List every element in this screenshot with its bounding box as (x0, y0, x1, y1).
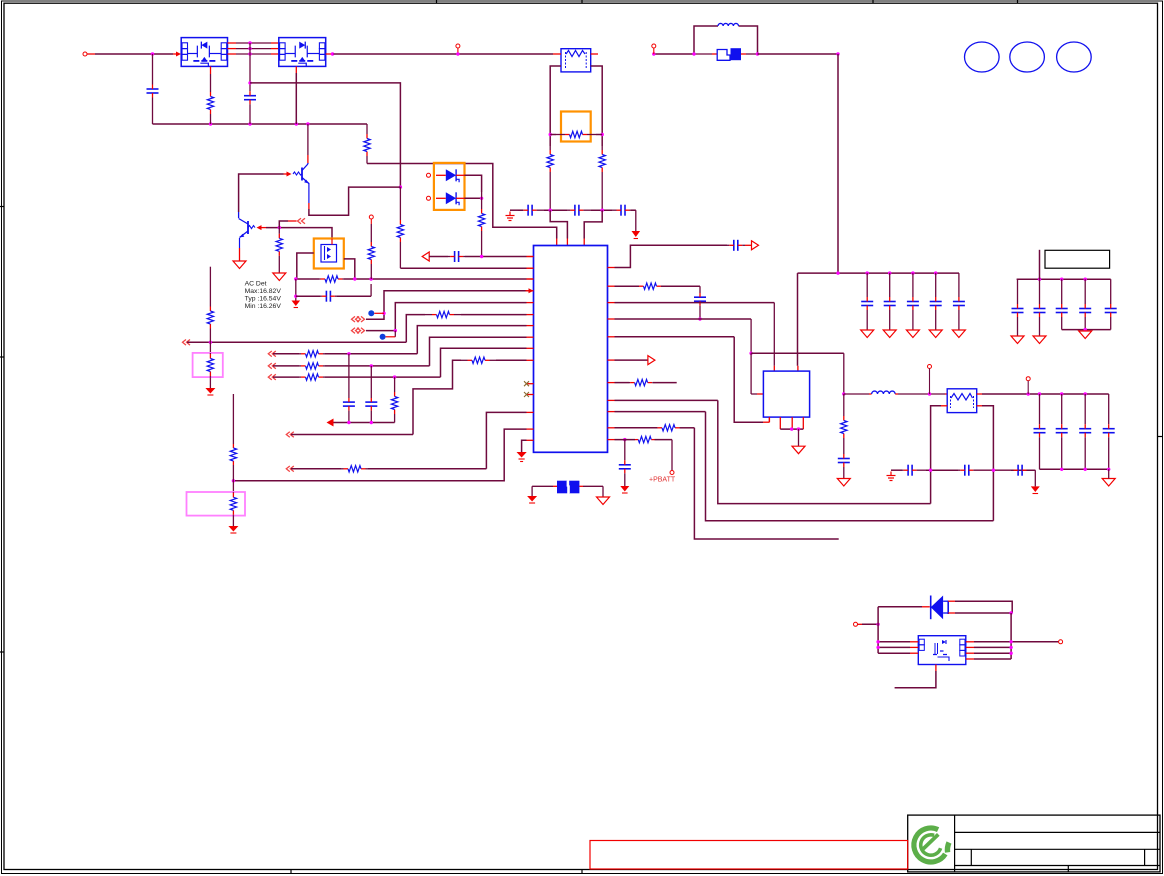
wire (751, 353, 844, 394)
wire (531, 486, 533, 496)
wire (966, 652, 1013, 655)
pin (331, 239, 333, 245)
title block (908, 815, 1160, 872)
label PBATT (649, 477, 676, 484)
wire net8 (273, 348, 527, 380)
resistor R23 (615, 436, 673, 442)
wire to IC (482, 256, 534, 258)
fuse F1 (694, 48, 758, 60)
wire (152, 54, 154, 84)
port P3 (183, 340, 191, 346)
wire net16 (615, 400, 931, 503)
capacitor C25 (619, 440, 631, 486)
wire net14 (615, 319, 752, 353)
wire Q4 base (266, 228, 332, 239)
wire (295, 279, 297, 301)
junction (836, 271, 937, 274)
junction (248, 41, 251, 55)
capacitor C24 (838, 452, 850, 479)
junction (209, 122, 310, 125)
capacitor C7 (518, 205, 544, 216)
junction (692, 52, 759, 55)
capacitor bank C10-C14 (861, 273, 966, 337)
junction (1009, 611, 1012, 614)
wires Q1-Q2 (228, 43, 280, 54)
resistor R11 (556, 131, 596, 137)
wire net4 (366, 303, 527, 331)
wire RT1 right leg (591, 66, 603, 146)
capacitor C5 (296, 291, 371, 302)
capacitor C8 (567, 205, 591, 216)
capacitor C22 (727, 240, 745, 251)
ground (597, 497, 610, 505)
terminal PBATT (670, 471, 674, 475)
wire to IC top3 (584, 210, 602, 245)
port P7 (286, 432, 294, 438)
junction (347, 421, 373, 424)
power flag (632, 231, 641, 239)
pin arrow Q1 (173, 52, 181, 57)
wire (758, 52, 840, 55)
junction (623, 438, 626, 441)
terminal (369, 215, 373, 224)
thermistor RT1 (561, 49, 591, 72)
wire (798, 429, 800, 446)
pin (210, 66, 212, 74)
wire gnd pin (522, 440, 527, 452)
terminal (456, 44, 460, 56)
junction (151, 52, 154, 55)
resistor R11 highlight (561, 112, 591, 142)
port P2 (352, 328, 365, 334)
pin (977, 393, 982, 395)
wire lower rail (1062, 318, 1111, 331)
wire (699, 286, 701, 293)
wire (895, 671, 936, 688)
wire (878, 606, 930, 608)
wire (631, 210, 636, 231)
pin (556, 239, 558, 246)
wire (876, 646, 918, 649)
svg-text:Max:16.82V: Max:16.82V (245, 288, 282, 295)
wire Q3 base (239, 174, 284, 212)
wire net3 (366, 291, 527, 319)
port (422, 252, 429, 261)
ground (228, 526, 238, 533)
capacitor bank C15-C19 (1012, 279, 1117, 329)
junction (209, 341, 212, 344)
wire (671, 440, 673, 470)
wire (751, 353, 763, 394)
wire net19 (931, 406, 941, 504)
resistor R12 (547, 146, 553, 210)
ground (792, 446, 805, 454)
diode D3 (931, 596, 949, 620)
ground (233, 261, 246, 269)
wire net11 (233, 429, 526, 481)
capacitor C32 (1011, 465, 1035, 476)
inductor L1 loop (694, 26, 758, 54)
port P8 (286, 466, 294, 472)
svg-text:AC Det: AC Det (245, 281, 267, 288)
wire (1011, 318, 1024, 344)
capacitor C2 (244, 83, 256, 124)
wire (496, 359, 527, 361)
pin arrow Q4 base (257, 225, 267, 230)
wire Q3 emitter (309, 183, 401, 215)
resistor R5 (397, 187, 403, 268)
wire D1 (465, 175, 482, 192)
port stub (279, 221, 296, 228)
ground (1079, 331, 1092, 339)
pin (295, 66, 297, 73)
inductor L1 (718, 23, 739, 26)
resistor R10 (478, 192, 484, 257)
junction (370, 364, 373, 367)
wire (232, 516, 234, 526)
resistor R14 (425, 311, 461, 317)
junction (549, 133, 604, 136)
wire (745, 244, 752, 246)
terminal (1059, 640, 1063, 644)
resistor R18 (207, 306, 213, 353)
wire (926, 469, 958, 471)
terminal (1026, 377, 1030, 394)
junction (347, 352, 350, 355)
wire input (95, 53, 173, 55)
wire gnd rail (334, 422, 395, 424)
power arrow (327, 419, 334, 427)
wire net15 (615, 337, 770, 422)
wire net5 (187, 315, 425, 343)
wire (232, 394, 234, 444)
junction (480, 255, 483, 258)
ic U2 bottom pins (769, 417, 803, 429)
wire (1010, 613, 1012, 659)
ground (887, 472, 896, 481)
revision box (590, 841, 908, 870)
capacitor C21 (365, 366, 377, 423)
wire (461, 314, 527, 316)
junction (1027, 392, 1087, 395)
junction (698, 317, 701, 320)
wire (948, 601, 1012, 613)
capacitor C23 (694, 293, 706, 319)
wire (370, 284, 372, 296)
resistor R8 (319, 276, 344, 282)
note box (1045, 250, 1110, 268)
ground (527, 496, 537, 503)
resistor R7 (276, 228, 282, 273)
ground (620, 486, 629, 493)
wire (209, 267, 211, 306)
resistor R9 (368, 224, 374, 279)
wire net20 (982, 406, 993, 521)
junction (929, 469, 932, 472)
resistor R16 (461, 357, 496, 363)
port P10 (615, 356, 655, 365)
resistor R13 (599, 146, 605, 210)
wire net1 (250, 83, 400, 187)
pin (238, 212, 240, 218)
resistor R21 (615, 379, 677, 385)
sense resistor RS1 (947, 389, 977, 413)
ic U2 (763, 371, 809, 417)
wire (209, 377, 211, 388)
label ACDet (245, 281, 282, 311)
mosfet Q1 (181, 38, 227, 67)
junction (876, 623, 879, 626)
junction (842, 392, 845, 395)
wire (1017, 278, 1111, 280)
wire D2 (465, 197, 482, 199)
svg-text:Typ :16.54V: Typ :16.54V (245, 296, 282, 303)
resistor R22 (615, 425, 695, 431)
wire (797, 273, 799, 371)
wire net AC (296, 278, 534, 280)
wire (862, 623, 878, 625)
junction (549, 209, 604, 212)
terminal J1 (83, 52, 95, 56)
wire (550, 134, 602, 136)
wire (510, 209, 523, 211)
terminal (427, 173, 431, 200)
wire rail (153, 123, 368, 125)
wire Q4 emitter (239, 238, 241, 261)
terminal (854, 622, 863, 626)
wire (295, 73, 297, 124)
diode D1 D2 highlight (434, 163, 465, 210)
resistor R19 (615, 283, 701, 289)
junction (294, 277, 373, 280)
wire (544, 209, 567, 211)
wire RT1 left leg (550, 66, 561, 146)
wire (877, 607, 879, 653)
wire (249, 43, 251, 83)
capacitor C9 (612, 205, 636, 216)
ground (837, 479, 850, 487)
testpoint (380, 331, 396, 340)
wire (307, 124, 309, 163)
wire U2 gnd (780, 427, 803, 430)
testpoint (368, 310, 384, 316)
wire to IC (400, 267, 533, 269)
wire (1040, 468, 1109, 470)
wire (891, 469, 902, 471)
ground (205, 388, 215, 395)
junction (278, 226, 281, 229)
capacitor bank C26-C29 (1034, 394, 1115, 469)
wire (948, 612, 1011, 614)
wire stub (1039, 250, 1041, 279)
capacitor C6 (429, 251, 481, 262)
wire net18 (694, 428, 838, 539)
wire (966, 646, 1013, 649)
resistor R15 (391, 377, 397, 422)
pin arrow (526, 288, 534, 293)
logo (914, 828, 949, 862)
nc pins (524, 381, 534, 397)
wire (652, 52, 694, 55)
wire (878, 652, 918, 654)
power flag (292, 301, 301, 308)
varistor RV2 (187, 492, 246, 516)
junction (928, 392, 931, 395)
svg-text:Min :16.26V: Min :16.26V (245, 303, 282, 310)
port P4 (268, 351, 276, 357)
mosfet Q5 highlight (314, 239, 344, 269)
varistor RV1 (193, 353, 223, 377)
ic U1 (534, 246, 608, 453)
ground (506, 212, 515, 221)
port AC_OK (298, 218, 306, 224)
wire (798, 272, 960, 274)
ground (1102, 479, 1115, 487)
ground (273, 273, 286, 281)
pin (941, 405, 947, 407)
wire (1108, 469, 1110, 478)
wire Q2 to RT1 (334, 53, 554, 55)
wire (992, 469, 1036, 472)
wire net2 (367, 164, 557, 239)
wire net13 (615, 303, 775, 372)
wire (876, 640, 918, 643)
wire net7 (273, 337, 527, 369)
junction (394, 329, 397, 332)
inductor L2 (844, 391, 947, 394)
junction (393, 375, 396, 378)
wire net10 (291, 412, 527, 472)
port P5 (268, 363, 276, 369)
wire net17 (615, 412, 994, 521)
ic U1 right pins (608, 268, 615, 440)
junction (1060, 468, 1110, 471)
mosfet Q6 (918, 636, 966, 665)
junction (1038, 278, 1087, 281)
ellipses O1 O2 O3 (965, 42, 1092, 72)
pin (553, 53, 598, 55)
junction (294, 295, 297, 298)
wire net6 (273, 326, 527, 357)
capacitor C30 (902, 465, 926, 476)
junction (232, 479, 235, 482)
transistor Q3 (293, 163, 309, 184)
resistor R1 (207, 74, 213, 124)
capacitor C1 (147, 84, 159, 124)
junction (399, 185, 402, 188)
pin (977, 405, 982, 407)
junction (480, 197, 483, 200)
wire (966, 640, 1059, 643)
capacitor C20 (343, 354, 355, 423)
wire net9 (291, 360, 461, 434)
wire to IC top2 (550, 210, 567, 245)
resistor R20 (841, 394, 847, 452)
terminal (928, 365, 932, 395)
junction (248, 81, 251, 84)
ic U1 left pins (527, 257, 534, 441)
wire net12 (615, 245, 728, 267)
ground (517, 452, 527, 462)
mosfet Q2 (279, 38, 326, 67)
junction (382, 312, 385, 315)
pin arrow Q3 base (284, 172, 292, 177)
wire (982, 393, 1109, 395)
ground (1031, 486, 1040, 493)
crystal Y1 (532, 481, 603, 494)
wire (1033, 318, 1046, 344)
wire (602, 486, 604, 497)
wire (966, 658, 1011, 660)
pin (935, 665, 937, 672)
wire main vert (837, 54, 839, 273)
resistor R4 (364, 124, 370, 164)
pin Q2 right (326, 52, 334, 55)
transistor Q4 (239, 219, 255, 238)
wire (591, 209, 612, 211)
terminal (652, 44, 656, 54)
wire Q5 left (297, 253, 314, 279)
wire Q5 right (344, 259, 355, 279)
wire (1034, 470, 1036, 486)
port P9 (752, 241, 759, 250)
capacitor C31 (958, 465, 1011, 476)
svg-text:+PBATT: +PBATT (649, 477, 676, 484)
port P6 (268, 374, 276, 380)
junction (749, 352, 752, 355)
port P1 (352, 316, 365, 322)
resistor R17 (230, 444, 236, 492)
